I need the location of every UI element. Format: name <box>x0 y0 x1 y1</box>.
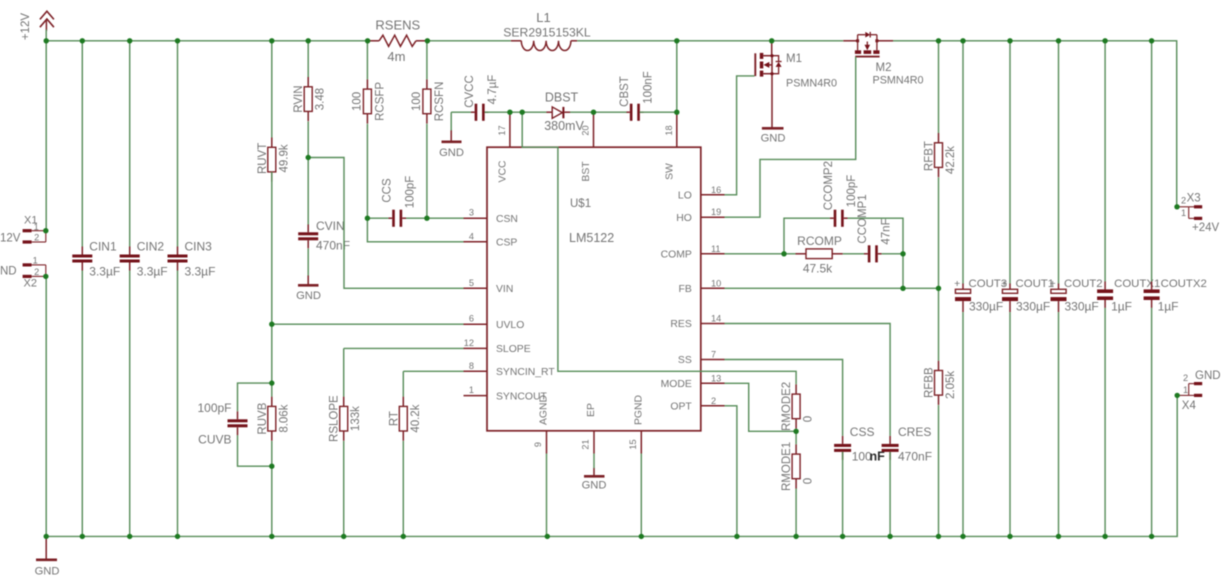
svg-text:PSMN4R0: PSMN4R0 <box>786 78 837 90</box>
capacitor CBST 100nF <box>626 104 644 121</box>
pin 3 CSN <box>464 208 518 225</box>
wire OPT net <box>725 406 737 537</box>
svg-text:330µF: 330µF <box>969 300 1003 314</box>
+12V supply symbol <box>40 11 54 31</box>
svg-text:49.9k: 49.9k <box>278 144 290 172</box>
wire CIN1 column <box>81 41 83 537</box>
svg-text:21: 21 <box>581 439 591 449</box>
capacitor CVCC 4.7uF <box>471 104 489 121</box>
wire UVLO divider column <box>238 41 464 537</box>
wire CSN net <box>406 41 464 218</box>
junction dots misc nodes <box>43 155 1180 469</box>
svg-text:COUT2: COUT2 <box>1064 278 1103 290</box>
pin 2 OPT <box>670 396 724 413</box>
svg-text:CRES: CRES <box>898 425 931 439</box>
svg-text:2: 2 <box>711 396 716 406</box>
svg-text:CCS: CCS <box>381 178 393 203</box>
svg-text:0: 0 <box>803 478 815 484</box>
svg-text:RMODE1: RMODE1 <box>781 442 793 491</box>
wire CIN3 column <box>177 41 179 537</box>
svg-text:GND: GND <box>582 480 607 492</box>
resistor RUVT 49.9k <box>268 138 276 182</box>
svg-text:M2: M2 <box>876 62 892 74</box>
svg-text:CSN: CSN <box>496 214 518 225</box>
svg-text:12V: 12V <box>0 233 21 245</box>
op-amp U1 LM5122 controller body <box>487 147 701 431</box>
wire MODE net <box>725 383 797 536</box>
pin 17 VCC <box>497 114 510 183</box>
svg-text:330µF: 330µF <box>1065 300 1099 314</box>
svg-text:4: 4 <box>469 231 474 241</box>
svg-text:14: 14 <box>711 314 721 324</box>
svg-text:3.3µF: 3.3µF <box>89 265 120 279</box>
capacitor CIN3 3.3uF <box>168 247 188 271</box>
svg-text:SYNCIN_RT: SYNCIN_RT <box>496 367 555 378</box>
svg-text:RFBT: RFBT <box>924 141 936 171</box>
wire CIN2 column <box>129 41 131 537</box>
wire PGND <box>640 454 642 537</box>
svg-text:100: 100 <box>351 92 363 111</box>
pin 4 CSP <box>464 231 518 248</box>
wire RES net <box>725 324 891 537</box>
svg-text:1: 1 <box>33 256 38 266</box>
svg-text:18: 18 <box>664 125 674 135</box>
svg-text:100nF: 100nF <box>642 71 654 104</box>
svg-text:11: 11 <box>711 244 721 254</box>
svg-text:M1: M1 <box>786 53 802 65</box>
pin 15 PGND <box>628 395 645 454</box>
connector X2 <box>0 256 46 290</box>
svg-text:3.3µF: 3.3µF <box>137 265 168 279</box>
pin 13 MODE <box>661 373 725 390</box>
wire SW node <box>427 41 843 114</box>
svg-text:COUT1: COUT1 <box>1016 278 1055 290</box>
wire LO gate drive <box>725 76 755 195</box>
svg-text:CCOMP2: CCOMP2 <box>823 161 835 210</box>
svg-text:47nF: 47nF <box>880 218 892 244</box>
resistor RFBB 2.05k <box>935 361 943 405</box>
svg-text:19: 19 <box>711 207 721 217</box>
svg-text:133k: 133k <box>350 406 362 431</box>
capacitor COUTX2 1uF <box>1144 281 1160 308</box>
capacitor COUT2 330uF polarized <box>1051 283 1067 312</box>
wire AGND <box>546 454 548 537</box>
resistor RUVB 8.06k <box>268 397 276 441</box>
wire HO gate drive <box>725 57 856 217</box>
wire CSP net <box>367 41 463 242</box>
svg-text:1µF: 1µF <box>1111 300 1132 314</box>
svg-text:1: 1 <box>1183 385 1188 395</box>
capacitor COUT3 330uF polarized <box>955 283 971 312</box>
resistor RSLOPE 133k <box>340 397 348 441</box>
svg-text:+12V: +12V <box>20 13 32 41</box>
svg-text:2: 2 <box>1183 373 1188 383</box>
svg-text:PSMN4R0: PSMN4R0 <box>873 75 924 87</box>
svg-text:330µF: 330µF <box>1016 300 1050 314</box>
ground bottom-left <box>36 536 57 559</box>
svg-text:X4: X4 <box>1182 400 1197 412</box>
junction dots bottom rail <box>44 534 1155 539</box>
svg-text:MODE: MODE <box>661 379 692 390</box>
svg-text:6: 6 <box>469 314 474 324</box>
svg-text:SS: SS <box>678 355 692 366</box>
resistor RFBT 42.2k <box>935 133 943 177</box>
pin 21 EP <box>581 403 598 453</box>
inductor L1 SER2915153KL <box>511 41 577 51</box>
svg-text:16: 16 <box>711 185 721 195</box>
svg-text:AGND: AGND <box>539 395 550 425</box>
svg-text:RCOMP: RCOMP <box>797 234 842 248</box>
svg-text:COUTX2: COUTX2 <box>1161 278 1207 290</box>
svg-text:RCSFN: RCSFN <box>434 82 446 122</box>
wire VIN node <box>308 41 463 288</box>
svg-text:GND: GND <box>439 147 464 159</box>
svg-text:42.2k: 42.2k <box>945 146 957 174</box>
svg-text:470nF: 470nF <box>898 450 932 464</box>
svg-text:CVCC: CVCC <box>464 75 476 108</box>
resistor RT 40.2k <box>399 397 407 441</box>
svg-text:+: + <box>1001 278 1007 290</box>
wire RT net <box>403 371 463 536</box>
svg-text:100pF: 100pF <box>197 401 231 415</box>
pin 19 HO <box>676 207 724 224</box>
svg-text:1: 1 <box>1181 208 1186 218</box>
wire EP to ground <box>593 454 595 469</box>
pin 9 AGND <box>533 395 550 454</box>
svg-text:ND: ND <box>0 266 17 278</box>
wire SS net <box>725 360 843 537</box>
connector X4 <box>1177 370 1220 412</box>
svg-text:380mV: 380mV <box>544 119 584 133</box>
capacitor CUVB 100pF <box>228 411 248 435</box>
resistor RSENS 4m <box>368 35 428 46</box>
capacitor CRES 470nF <box>882 436 899 460</box>
svg-text:3: 3 <box>469 208 474 218</box>
svg-text:2: 2 <box>1181 196 1186 206</box>
svg-text:COMP: COMP <box>661 250 692 261</box>
transistor M1 PSMN4R0 <box>755 41 781 128</box>
capacitor CSS 100nF <box>834 436 851 460</box>
svg-text:DBST: DBST <box>545 91 579 105</box>
svg-text:CCOMP1: CCOMP1 <box>857 194 869 243</box>
svg-text:+24V: +24V <box>1192 222 1220 234</box>
svg-text:RMODE2: RMODE2 <box>781 382 793 431</box>
svg-text:BST: BST <box>581 161 592 182</box>
svg-text:CIN1: CIN1 <box>89 240 117 254</box>
capacitor CCOMP2 100pF <box>830 210 848 227</box>
connector X1 <box>0 215 46 245</box>
svg-text:UVLO: UVLO <box>496 320 524 331</box>
svg-text:2: 2 <box>34 233 39 243</box>
svg-text:RCSFP: RCSFP <box>374 82 386 121</box>
svg-text:HO: HO <box>676 213 692 224</box>
svg-text:X2: X2 <box>24 278 37 290</box>
pin 12 SLOPE <box>464 338 531 355</box>
capacitor CVIN 470nF <box>298 224 318 248</box>
svg-text:1: 1 <box>469 385 474 395</box>
resistor RCSFP 100 <box>363 79 371 123</box>
resistor RMODE1 0 <box>792 444 800 488</box>
svg-text:8.06k: 8.06k <box>278 404 290 432</box>
resistor RVIN 3.48 <box>304 77 312 121</box>
wire COMP network <box>725 218 904 288</box>
pin 20 BST <box>581 114 594 182</box>
wire +24V output rail <box>893 41 1177 537</box>
svg-text:5: 5 <box>469 278 474 288</box>
svg-text:X3: X3 <box>1187 193 1201 205</box>
svg-text:12: 12 <box>464 338 474 348</box>
svg-text:EP: EP <box>586 403 597 417</box>
svg-text:4.7µF: 4.7µF <box>487 75 499 105</box>
pin 7 SS <box>678 350 725 367</box>
svg-text:VCC: VCC <box>497 160 508 182</box>
svg-text:CUVB: CUVB <box>198 433 231 447</box>
svg-text:GND: GND <box>35 566 60 578</box>
svg-text:RFBB: RFBB <box>924 367 936 398</box>
svg-text:7: 7 <box>711 350 716 360</box>
svg-text:CSP: CSP <box>496 238 517 249</box>
svg-text:CVIN: CVIN <box>316 219 345 233</box>
svg-text:9: 9 <box>533 442 543 447</box>
capacitor CCOMP1 47nF <box>864 245 882 262</box>
ground CVIN <box>298 276 319 286</box>
transistor M2 PSMN4R0 <box>843 32 893 57</box>
svg-text:2: 2 <box>34 267 39 277</box>
capacitor CIN2 3.3uF <box>120 247 140 271</box>
svg-text:U$1: U$1 <box>570 198 591 210</box>
capacitor COUT1 330uF polarized <box>1002 283 1018 312</box>
svg-text:PGND: PGND <box>633 395 644 425</box>
svg-text:RSENS: RSENS <box>375 18 420 33</box>
svg-text:SLOPE: SLOPE <box>496 344 531 355</box>
pin 1 SYNCOUT <box>464 385 548 402</box>
svg-text:SW: SW <box>664 163 675 180</box>
pin 14 RES <box>670 314 724 331</box>
svg-text:CBST: CBST <box>619 76 631 107</box>
ground M1 source <box>762 127 784 130</box>
wire GND bottom rail <box>46 276 1177 536</box>
svg-text:40.2k: 40.2k <box>410 404 422 432</box>
svg-text:COUTX1: COUTX1 <box>1114 278 1160 290</box>
svg-text:RUVB: RUVB <box>257 402 269 434</box>
svg-text:GND: GND <box>296 290 321 302</box>
svg-text:17: 17 <box>497 125 507 135</box>
svg-text:10: 10 <box>711 278 721 288</box>
svg-text:13: 13 <box>711 373 721 383</box>
capacitor COUTX1 1uF <box>1097 281 1113 308</box>
svg-text:L1: L1 <box>536 10 550 25</box>
svg-text:8: 8 <box>469 361 474 371</box>
svg-text:100pF: 100pF <box>405 176 417 209</box>
capacitor CIN1 3.3uF <box>72 247 92 271</box>
svg-text:VIN: VIN <box>496 284 513 295</box>
svg-text:LM5122: LM5122 <box>569 231 614 245</box>
pin 5 VIN <box>464 278 514 295</box>
svg-text:RT: RT <box>388 411 400 426</box>
svg-text:100: 100 <box>411 92 423 111</box>
svg-text:+: + <box>954 278 960 290</box>
pin 8 SYNCIN_RT <box>464 361 556 378</box>
resistor RCOMP 47.5k <box>796 249 843 259</box>
svg-text:OPT: OPT <box>670 402 692 413</box>
diode DBST 380mV <box>546 107 570 118</box>
svg-text:GND: GND <box>1195 370 1221 382</box>
connector X3 <box>1177 193 1220 235</box>
svg-text:GND: GND <box>761 133 786 145</box>
svg-text:SER2915153KL: SER2915153KL <box>503 26 591 40</box>
wire FB divider column <box>725 41 939 537</box>
resistor RMODE2 0 <box>792 384 800 428</box>
wire SLOPE net <box>344 348 464 536</box>
pin 6 UVLO <box>464 314 525 331</box>
svg-text:CIN3: CIN3 <box>185 240 213 254</box>
pin 18 SW <box>664 114 677 180</box>
svg-text:CIN2: CIN2 <box>137 240 165 254</box>
svg-text:3.3µF: 3.3µF <box>185 265 216 279</box>
resistor RCSFN 100 <box>423 79 431 123</box>
svg-text:1: 1 <box>34 222 39 232</box>
svg-text:LO: LO <box>678 191 692 202</box>
svg-text:+: + <box>1050 278 1056 290</box>
pin 11 COMP <box>661 244 725 261</box>
svg-text:470nF: 470nF <box>316 239 350 253</box>
svg-text:15: 15 <box>628 439 638 449</box>
svg-text:RSLOPE: RSLOPE <box>329 395 341 442</box>
junction dots VCC node line <box>507 110 679 115</box>
svg-text:FB: FB <box>679 284 692 295</box>
svg-text:47.5k: 47.5k <box>803 262 833 276</box>
ground EP <box>584 468 605 477</box>
pin 10 FB <box>679 278 725 295</box>
wire +12V rail and input column <box>46 30 367 231</box>
svg-text:2.05k: 2.05k <box>945 371 957 399</box>
svg-text:1µF: 1µF <box>1158 300 1179 314</box>
wire VCC node <box>451 112 796 384</box>
svg-text:RES: RES <box>670 319 691 330</box>
capacitor CCS 100pF <box>388 210 406 227</box>
svg-text:RVIN: RVIN <box>293 85 305 112</box>
ground CVCC <box>442 130 462 142</box>
pin 16 LO <box>678 185 725 202</box>
svg-text:3.48: 3.48 <box>315 88 327 110</box>
junction dots top rail <box>44 38 1155 43</box>
svg-text:0: 0 <box>803 416 815 422</box>
svg-text:RUVT: RUVT <box>257 143 269 174</box>
svg-text:4m: 4m <box>387 49 405 64</box>
svg-text:CSS: CSS <box>850 425 875 439</box>
